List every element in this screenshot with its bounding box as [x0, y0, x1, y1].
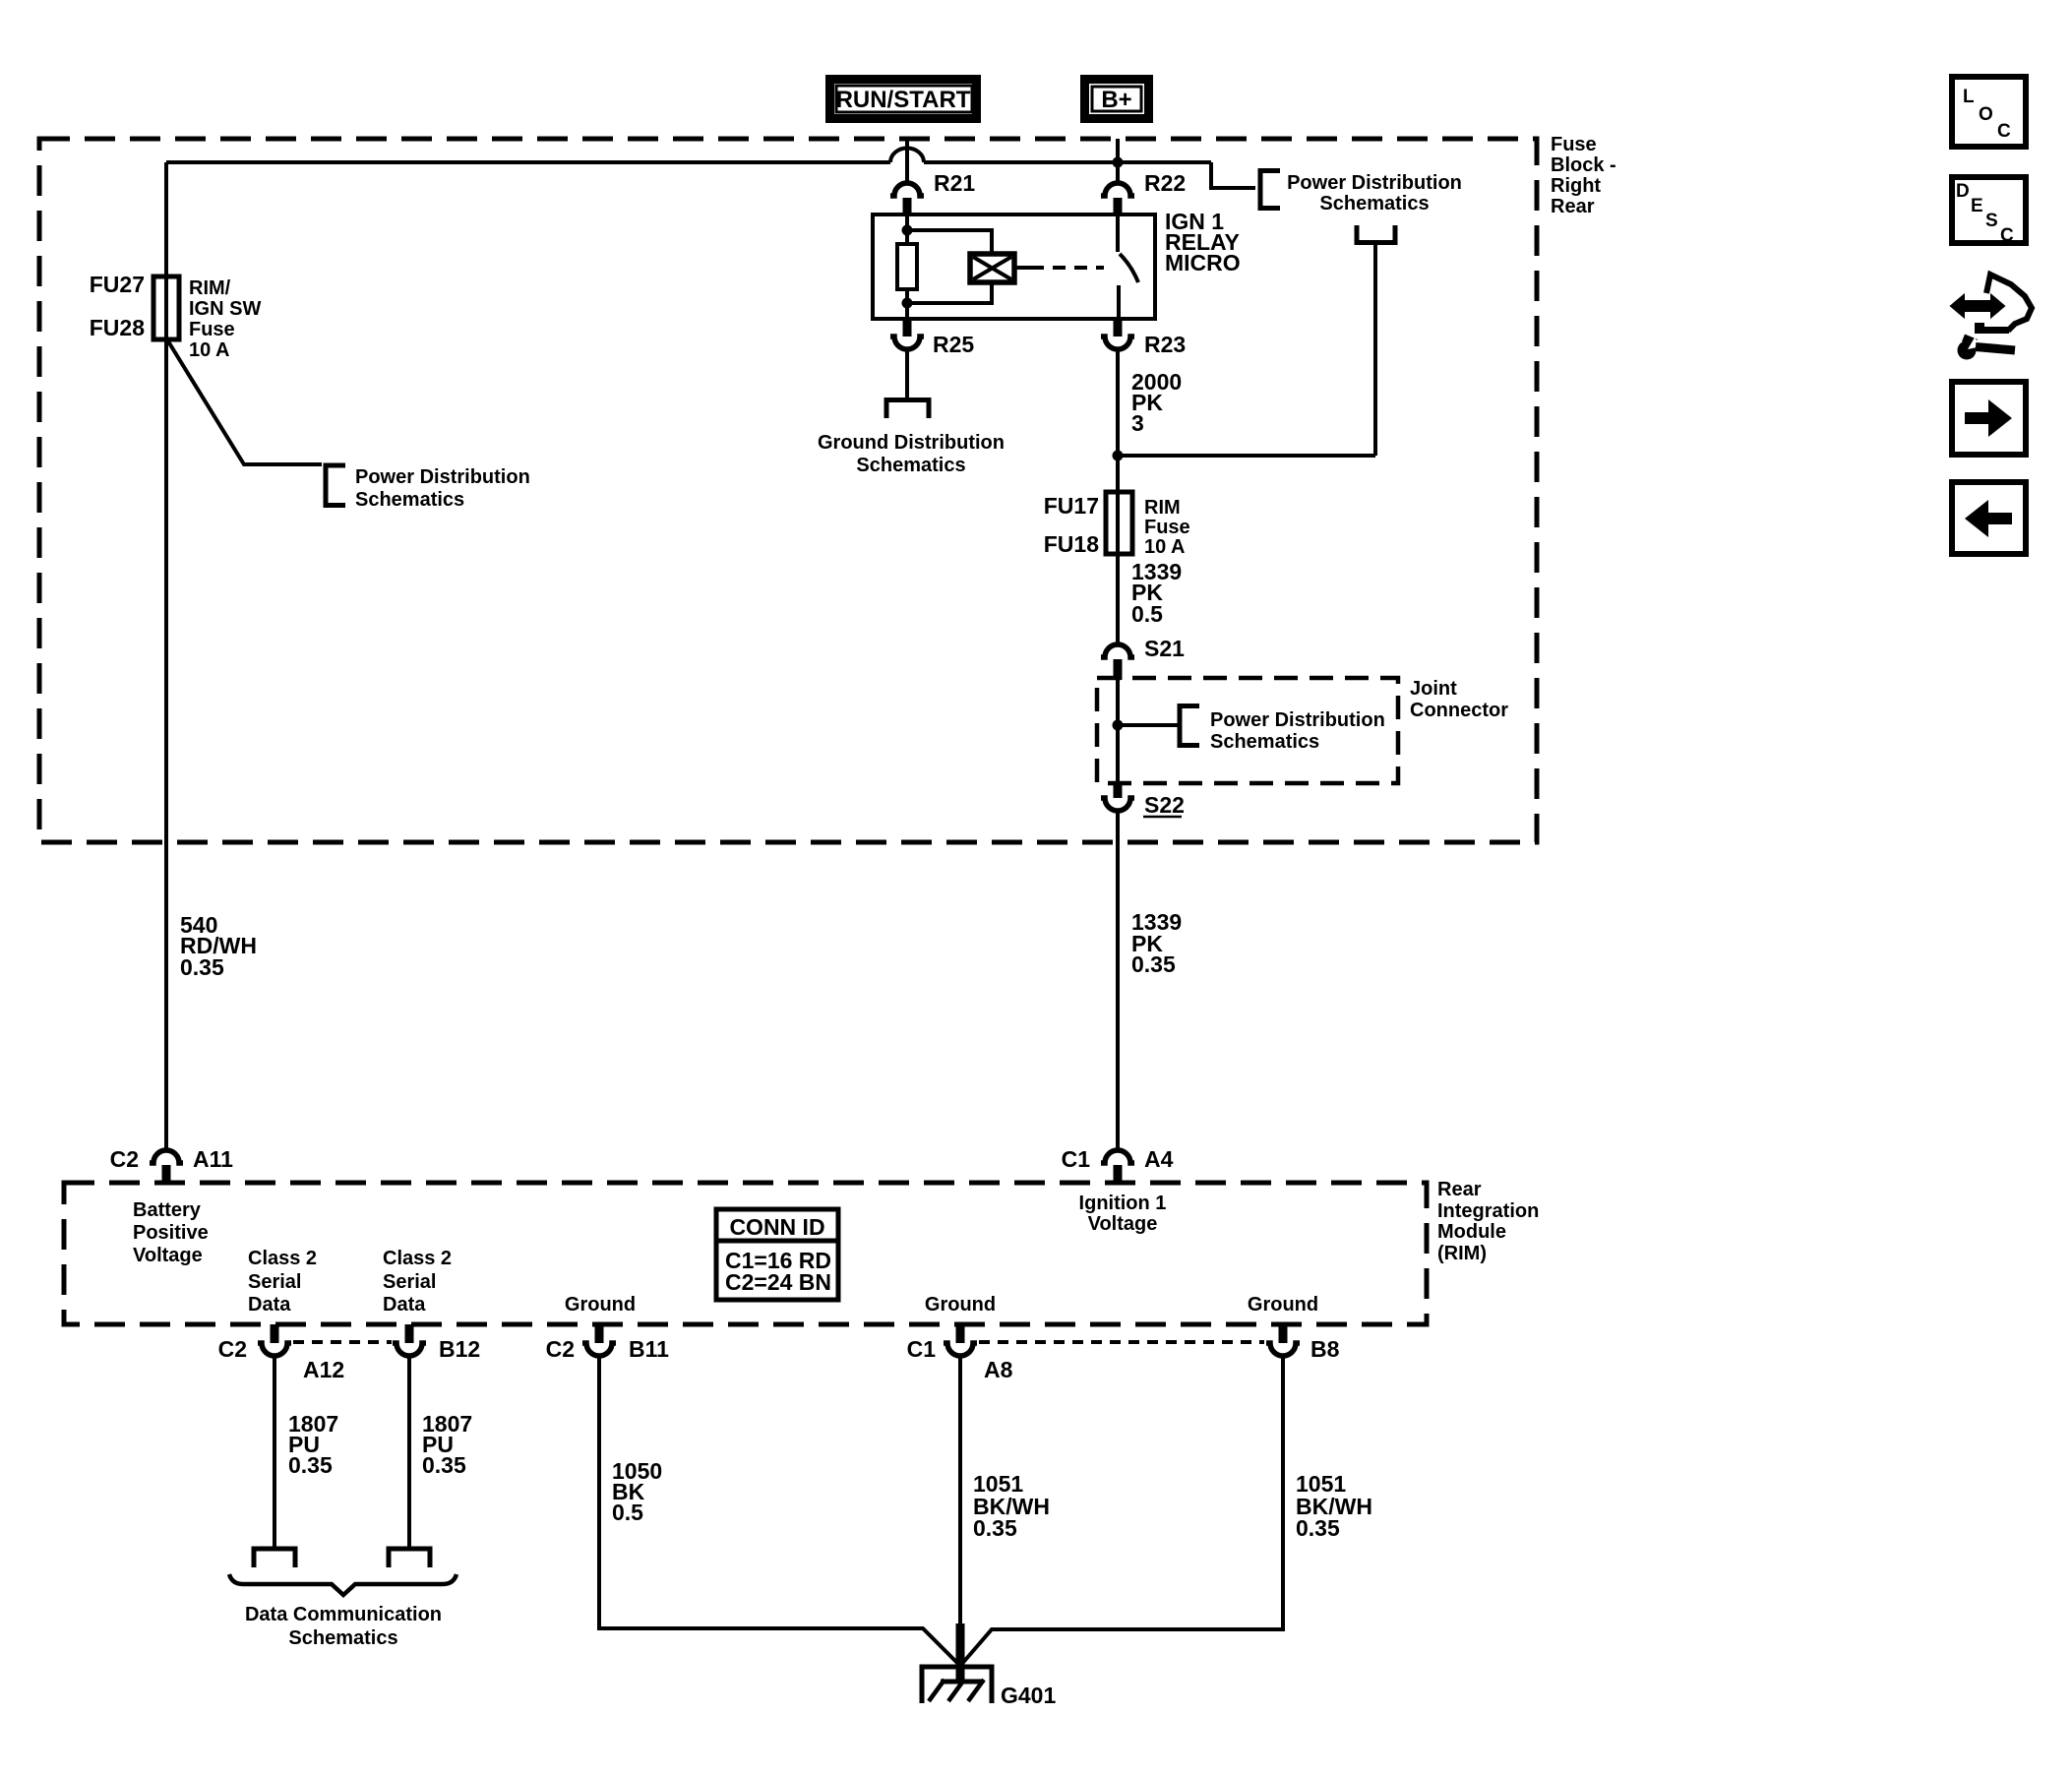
icon button LOC	[1952, 77, 2026, 147]
icon button DESC	[1952, 177, 2026, 246]
svg-text:(RIM): (RIM)	[1437, 1243, 1487, 1264]
node junction to return wire	[1113, 451, 1124, 461]
node coil bottom	[902, 298, 913, 309]
svg-text:Data Communication: Data Communication	[245, 1604, 442, 1625]
svg-text:0.35: 0.35	[180, 954, 224, 980]
svg-text:Rear: Rear	[1551, 196, 1595, 217]
svg-text:0.5: 0.5	[1131, 601, 1163, 627]
connector S22	[1101, 783, 1185, 818]
wire B12 serial data down	[407, 1357, 411, 1548]
svg-text:FU28: FU28	[90, 315, 145, 340]
label Battery Positive Voltage	[133, 1199, 209, 1266]
label Power Distribution Schematics (top right)	[1287, 172, 1462, 214]
svg-text:G401: G401	[1001, 1683, 1056, 1708]
label Joint Connector	[1410, 678, 1508, 721]
Rear Integration Module dashed boundary	[64, 1183, 1427, 1324]
wire B11 ground down to G401	[599, 1357, 960, 1667]
svg-text:B11: B11	[629, 1336, 669, 1362]
svg-text:CONN ID: CONN ID	[729, 1214, 824, 1240]
svg-text:Data: Data	[248, 1294, 291, 1316]
connector C2 A11	[110, 1146, 234, 1185]
wire coil parallel branch bottom	[907, 282, 992, 303]
svg-text:Integration: Integration	[1437, 1200, 1539, 1222]
bracket reference top-right	[1260, 171, 1280, 209]
label wire 1807 PU 0.35 (left)	[288, 1411, 338, 1478]
svg-text:C2: C2	[110, 1146, 139, 1172]
icon wrench	[1958, 335, 2016, 360]
wire through joint connector	[1116, 680, 1120, 783]
half-box off-page data comm (right)	[389, 1549, 430, 1567]
svg-text:Class 2: Class 2	[383, 1248, 452, 1269]
svg-text:B8: B8	[1310, 1336, 1340, 1362]
svg-text:Module: Module	[1437, 1221, 1506, 1243]
connector S21	[1101, 636, 1185, 680]
label Class 2 Serial Data (left)	[248, 1248, 317, 1316]
svg-text:Connector: Connector	[1410, 700, 1508, 721]
terminal box B+	[1085, 80, 1149, 119]
wire to top-right power distribution reference	[1211, 162, 1255, 188]
svg-text:C: C	[2000, 225, 2014, 246]
svg-text:0.35: 0.35	[1296, 1515, 1340, 1541]
relay switch output pin	[1117, 285, 1121, 319]
svg-text:Data: Data	[383, 1294, 426, 1316]
svg-text:Ground: Ground	[1248, 1294, 1318, 1316]
wire junction to joint reference bracket	[1118, 723, 1178, 727]
label wire 1051 BK/WH 0.35 (right)	[1296, 1471, 1372, 1541]
node junction in joint connector	[1113, 720, 1124, 731]
svg-text:R25: R25	[933, 332, 974, 357]
svg-text:RIM/: RIM/	[189, 277, 231, 299]
svg-text:D: D	[1956, 181, 1970, 202]
svg-text:R21: R21	[934, 170, 975, 196]
label RIM Fuse 10 A	[1144, 497, 1190, 558]
icon diagnostic double arrow	[1951, 295, 2004, 317]
svg-text:Battery: Battery	[133, 1199, 202, 1221]
connector B8	[1266, 1324, 1340, 1362]
label Ground Distribution Schematics	[818, 432, 1005, 476]
fuse FU17/FU18 RIM Fuse	[1044, 492, 1132, 557]
fuse block Right Rear dashed boundary	[39, 139, 1537, 842]
svg-text:Fuse: Fuse	[1551, 134, 1597, 155]
svg-text:Right: Right	[1551, 175, 1601, 197]
bracket reference left power distribution	[326, 465, 345, 506]
terminal box RUN/START	[830, 80, 977, 119]
label Power Distribution Schematics (left)	[355, 466, 530, 511]
svg-text:Serial: Serial	[248, 1271, 301, 1293]
label Class 2 Serial Data (right)	[383, 1248, 452, 1316]
svg-text:0.35: 0.35	[422, 1452, 466, 1478]
svg-text:3: 3	[1131, 410, 1144, 436]
label Data Communication Schematics	[245, 1604, 442, 1649]
svg-text:A12: A12	[303, 1357, 344, 1382]
icon button back arrow	[1952, 482, 2026, 554]
svg-text:FU18: FU18	[1044, 531, 1099, 557]
svg-text:A11: A11	[193, 1146, 233, 1172]
label RIM/ IGN SW Fuse 10 A	[189, 277, 261, 361]
svg-text:Schematics: Schematics	[1319, 193, 1429, 214]
svg-text:Schematics: Schematics	[1210, 731, 1319, 753]
svg-text:Power Distribution: Power Distribution	[1287, 172, 1462, 194]
wire junction to power distribution return	[1118, 454, 1375, 458]
wire S22 down to C1 A4	[1116, 812, 1120, 1151]
svg-text:Rear: Rear	[1437, 1179, 1482, 1200]
connector B12	[393, 1324, 480, 1362]
connector R21	[890, 170, 975, 216]
wire main horizontal bus at top	[166, 160, 1211, 164]
svg-text:C1: C1	[1062, 1146, 1091, 1172]
svg-text:FU27: FU27	[90, 272, 145, 297]
svg-text:Serial: Serial	[383, 1271, 436, 1293]
svg-text:Schematics: Schematics	[856, 455, 965, 476]
svg-text:B+: B+	[1101, 87, 1131, 113]
svg-text:MICRO: MICRO	[1165, 250, 1241, 276]
wire R23 down to FU17	[1116, 350, 1120, 493]
svg-text:Voltage: Voltage	[133, 1245, 203, 1266]
svg-text:Schematics: Schematics	[355, 489, 464, 511]
relay switch blade	[1120, 254, 1138, 282]
label Ignition 1 Voltage	[1079, 1193, 1167, 1235]
svg-text:Joint: Joint	[1410, 678, 1457, 700]
connector R25	[890, 319, 974, 357]
svg-text:L: L	[1963, 87, 1975, 107]
svg-text:FU17: FU17	[1044, 493, 1099, 519]
svg-text:Power Distribution: Power Distribution	[355, 466, 530, 488]
CONN ID table	[716, 1209, 838, 1300]
wire A12 serial data down	[273, 1357, 276, 1548]
half-box off-page ground distribution	[886, 400, 929, 419]
svg-text:0.35: 0.35	[973, 1515, 1017, 1541]
label Power Distribution Schematics (joint)	[1210, 709, 1385, 753]
svg-text:Class 2: Class 2	[248, 1248, 317, 1269]
wire return from power distribution reference down	[1373, 245, 1377, 456]
wire coil parallel branch top	[907, 230, 992, 254]
svg-text:10 A: 10 A	[189, 339, 230, 361]
svg-text:0.35: 0.35	[288, 1452, 333, 1478]
wire coil bottom	[905, 289, 909, 319]
label IGN 1 RELAY MICRO	[1165, 209, 1241, 276]
svg-text:E: E	[1971, 196, 1983, 216]
icon diagnostic outline squiggle	[1986, 275, 2032, 331]
svg-text:S: S	[1985, 211, 1998, 231]
svg-text:C2: C2	[218, 1336, 247, 1362]
svg-text:Voltage: Voltage	[1088, 1213, 1158, 1235]
wire RUN/START feed (vertical into R21)	[905, 139, 909, 183]
connector C2 B11	[546, 1324, 670, 1362]
node junction at R22	[1113, 157, 1124, 168]
svg-text:Block -: Block -	[1551, 154, 1616, 176]
connector R22	[1101, 170, 1186, 216]
dashed mechanical link coil to switch	[1031, 266, 1104, 270]
label wire 1339 PK 0.5	[1131, 559, 1182, 627]
wire left battery branch vertical	[164, 162, 168, 276]
resistor relay coil	[897, 244, 917, 289]
svg-text:B12: B12	[439, 1336, 480, 1362]
half-box off-page connector below top-right label	[1357, 225, 1395, 243]
label Rear Integration Module (RIM)	[1437, 1179, 1539, 1264]
svg-text:A4: A4	[1144, 1146, 1174, 1172]
relay switch pole from R22	[1116, 214, 1120, 252]
dashed twisted pair link A12-B12	[293, 1340, 392, 1344]
svg-text:C1: C1	[907, 1336, 937, 1362]
ground G401 symbol	[922, 1623, 992, 1703]
connector C1 A8	[907, 1324, 1013, 1382]
connector C1 A4	[1062, 1146, 1174, 1185]
relay box IGN 1 RELAY MICRO	[873, 214, 1155, 319]
svg-text:RIM: RIM	[1144, 497, 1181, 519]
wire hop over R21 line	[890, 149, 924, 163]
svg-text:10 A: 10 A	[1144, 536, 1186, 558]
wire B+ feed (vertical into R22)	[1116, 139, 1120, 183]
svg-text:Schematics: Schematics	[288, 1627, 397, 1649]
svg-text:IGN SW: IGN SW	[189, 298, 261, 320]
node coil top	[902, 225, 913, 236]
label Fuse Block - Right Rear	[1551, 134, 1616, 217]
svg-text:Power Distribution: Power Distribution	[1210, 709, 1385, 731]
coil actuator box with X	[970, 254, 1014, 282]
svg-text:R23: R23	[1144, 332, 1186, 357]
connector C2 A12	[218, 1324, 345, 1382]
svg-text:R22: R22	[1144, 170, 1186, 196]
icon diagnostic step bar	[1975, 323, 2009, 334]
fuse FU27/FU28 RIM/IGN SW	[90, 272, 179, 340]
svg-text:Ground Distribution: Ground Distribution	[818, 432, 1005, 454]
connector R23	[1101, 319, 1186, 357]
svg-text:Ground: Ground	[565, 1294, 636, 1316]
svg-text:Positive: Positive	[133, 1222, 209, 1244]
half-box off-page data comm (left)	[254, 1549, 295, 1567]
svg-text:O: O	[1979, 104, 1993, 125]
svg-text:A8: A8	[984, 1357, 1013, 1382]
svg-text:0.35: 0.35	[1131, 951, 1176, 977]
wire A8 ground straight down to G401	[958, 1357, 962, 1683]
svg-text:Ground: Ground	[925, 1294, 996, 1316]
label wire 1051 BK/WH 0.35 (middle)	[973, 1471, 1050, 1541]
wire B8 ground down to G401	[960, 1357, 1283, 1667]
svg-text:0.5: 0.5	[612, 1500, 643, 1525]
wire coil tail to dashed link	[1014, 266, 1031, 270]
svg-text:C: C	[1997, 121, 2011, 142]
wire 540 battery feed down to RIM	[164, 339, 168, 1150]
label wire 1050 BK 0.5	[612, 1458, 662, 1525]
dashed twisted pair link A8-B8	[979, 1340, 1264, 1344]
bracket reference joint connector	[1180, 706, 1199, 746]
svg-text:Fuse: Fuse	[1144, 517, 1190, 538]
svg-text:C2: C2	[546, 1336, 575, 1362]
label wire 1807 PU 0.35 (right)	[422, 1411, 472, 1478]
wire R25 to ground distribution reference	[905, 350, 909, 398]
label wire 1339 PK 0.35	[1131, 909, 1182, 977]
wire relay coil pin from R21	[905, 214, 909, 244]
svg-text:RUN/START: RUN/START	[836, 87, 971, 113]
wire FU17 to S21	[1116, 554, 1120, 644]
label wire 2000 PK 3	[1131, 369, 1182, 436]
icon button forward arrow	[1952, 382, 2026, 455]
svg-text:Fuse: Fuse	[189, 319, 235, 340]
joint connector dashed box	[1097, 678, 1398, 783]
svg-text:S21: S21	[1144, 636, 1185, 661]
svg-text:S22: S22	[1144, 792, 1185, 818]
wire fuse tap diagonal to power distribution reference	[168, 341, 322, 464]
label wire 540 RD/WH 0.35	[180, 912, 257, 980]
svg-text:Ignition 1: Ignition 1	[1079, 1193, 1167, 1214]
svg-text:C2=24 BN: C2=24 BN	[725, 1269, 831, 1295]
curly brace data communication	[229, 1574, 457, 1595]
